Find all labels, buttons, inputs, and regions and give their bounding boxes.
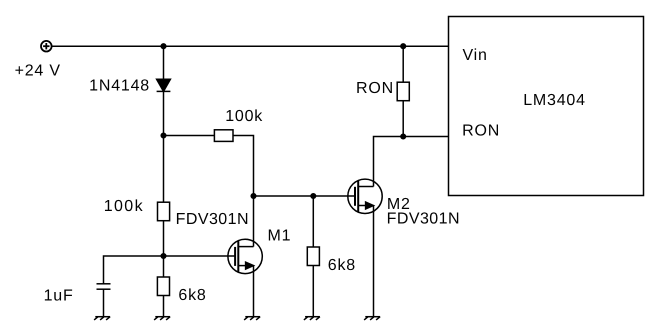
svg-text:6k8: 6k8 [178,287,206,304]
junction node A (M1 gate / cap / 6k8) [161,254,166,259]
diode D1 1N4148 [157,79,171,91]
svg-text:100k: 100k [225,108,263,125]
ground (capacitor) [94,317,110,320]
junction M1 drain node [251,194,256,199]
junction diode cathode node [161,133,166,138]
wire M1 drain [253,196,255,247]
resistor 6k8 (right) [307,247,319,266]
ground (6k8 right) [304,317,320,320]
wire gate node to M2 gate [254,195,356,197]
wire 100k vertical to node A [163,221,165,256]
resistor 100k horizontal [214,130,233,142]
wire node A to M1 gate [164,255,236,257]
capacitor C1 1uF [97,284,111,289]
wire diode anode [163,46,165,79]
wire 6k8 left to ground [163,296,165,317]
junction RON resistor top on Vin rail [401,44,406,49]
transistor M1 FDV301N [228,239,262,273]
wire Vin rail [52,45,449,47]
resistor 100k vertical [158,202,170,221]
wire 6k8 right to ground [312,266,314,317]
wire node A to capacitor [104,256,164,284]
svg-text:Vin: Vin [463,47,488,64]
wire M1 source [253,266,255,317]
wire left rail to 100k vertical resistor [163,136,165,203]
wire RON resistor bottom lead [402,101,404,137]
supply terminal +24V [41,41,52,52]
svg-text:6k8: 6k8 [328,257,356,274]
resistor 6k8 (left) [157,277,169,296]
transistor M2 FDV301N [348,179,382,213]
wire capacitor to ground [103,289,105,317]
ground (M2 source) [364,317,380,320]
svg-text:FDV301N: FDV301N [387,211,460,228]
ground (6k8 left) [154,317,170,320]
junction diode anode on Vin rail [161,44,166,49]
wire RON resistor top lead [402,46,404,82]
wire diode cathode [163,91,165,135]
svg-text:RON: RON [462,122,500,139]
wire M2 drain to RON pin [374,137,449,187]
wire M2 source [373,206,375,317]
wire diode node to 100k horizontal [164,135,215,137]
svg-text:FDV301N: FDV301N [176,211,249,228]
svg-text:1uF: 1uF [44,287,74,304]
svg-text:100k: 100k [104,198,144,215]
junction RON resistor bottom [401,134,406,139]
junction 6k8 branch node [311,194,316,199]
svg-text:LM3404: LM3404 [523,92,586,109]
wire 6k8 right branch [312,196,314,247]
ground (M1 source) [244,317,260,320]
svg-text:1N4148: 1N4148 [89,77,150,94]
svg-text:M1: M1 [268,228,292,245]
wire 100k horizontal to gate node [233,136,254,197]
IC U1 LM3404 [449,17,644,196]
resistor RON [397,82,409,101]
svg-text:+24 V: +24 V [15,63,61,80]
wire node A to 6k8 resistor [163,256,165,277]
svg-text:RON: RON [356,80,394,97]
